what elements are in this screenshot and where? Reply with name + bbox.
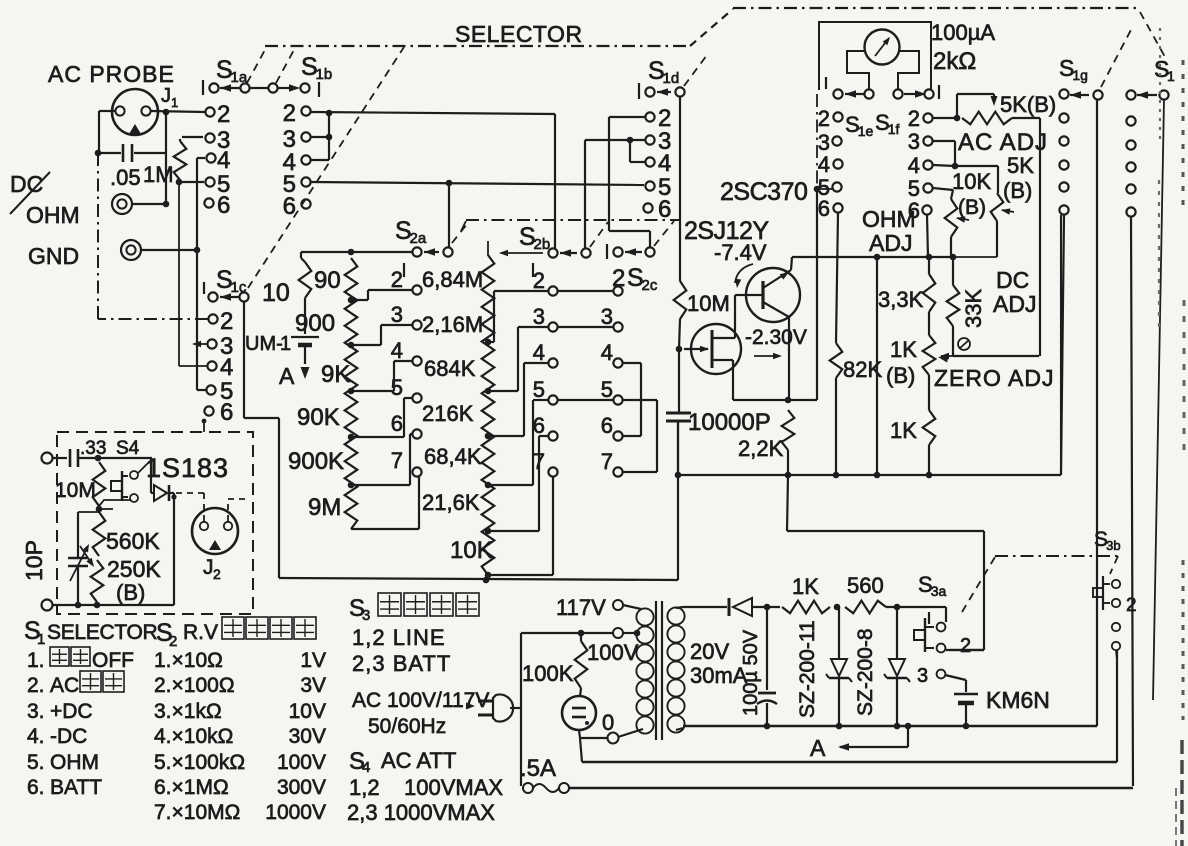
svg-text:2SC370: 2SC370	[720, 178, 807, 206]
svg-text:3: 3	[908, 129, 920, 154]
svg-text:2: 2	[220, 308, 233, 335]
switch S1b label	[301, 53, 332, 83]
svg-text:5: 5	[533, 377, 545, 402]
svg-text:5: 5	[391, 375, 403, 400]
label DC ADJ	[993, 267, 1036, 317]
battery UM-1	[291, 337, 319, 364]
switch S4	[99, 461, 150, 506]
wire secondary bottom to rail	[676, 726, 1097, 730]
scan edge artifacts	[1159, 28, 1184, 846]
label 9M	[308, 494, 341, 521]
svg-text:ZERO ADJ: ZERO ADJ	[934, 365, 1054, 391]
mech dash S3 link	[962, 556, 1118, 612]
label 250K (B)	[107, 556, 161, 605]
svg-text:AC 100V/117V: AC 100V/117V	[352, 689, 489, 712]
label .33 S4	[80, 438, 140, 459]
wire chain1 bottom to c7	[351, 477, 419, 529]
wire collector to OHM ADJ rail	[791, 254, 956, 270]
svg-text:AC ATT: AC ATT	[381, 748, 456, 773]
wire fuse line to S1h	[569, 787, 1133, 790]
svg-text:6: 6	[818, 196, 830, 221]
wire 100V tap bus	[521, 630, 613, 637]
svg-text:5: 5	[601, 377, 613, 402]
svg-text:OHM: OHM	[50, 751, 99, 774]
switch S2b contacts 2-7	[548, 286, 557, 476]
svg-text:3V: 3V	[300, 674, 326, 697]
capacitor 100u 50V	[757, 604, 777, 730]
wire return line to S3b	[582, 650, 1117, 762]
svg-text:2kΩ: 2kΩ	[933, 48, 976, 75]
label 1M	[143, 162, 174, 187]
switch S1c label	[216, 266, 247, 296]
svg-text:6: 6	[220, 399, 233, 426]
svg-text:3.×1kΩ: 3.×1kΩ	[154, 700, 222, 723]
trimmer screw	[958, 338, 970, 350]
resistor 2.2K	[782, 410, 795, 478]
capacitor .05	[101, 144, 165, 162]
svg-text:S4: S4	[116, 438, 140, 459]
svg-text:21,6K: 21,6K	[422, 490, 480, 515]
label -7.4V and arrow	[714, 240, 767, 288]
wire S1e c5 to meter return	[817, 188, 832, 190]
wire tap S2b c5	[488, 400, 548, 485]
resistor 100K	[575, 633, 588, 697]
svg-text:2,3 BATT: 2,3 BATT	[352, 651, 451, 676]
terminal top	[42, 453, 68, 464]
svg-text:3,3K: 3,3K	[878, 287, 924, 312]
wire source node	[733, 399, 817, 401]
switch S3b plunger	[1093, 576, 1120, 610]
label 21.6K	[422, 490, 480, 515]
svg-text:.5A: .5A	[520, 755, 556, 782]
resistor 1M	[174, 137, 204, 185]
labels S1d 2-6	[658, 105, 671, 223]
wire divider bottom bus	[279, 421, 678, 583]
svg-text:10K: 10K	[952, 169, 991, 194]
jack DC/OHM	[112, 194, 164, 214]
switch S2a contacts 2-7	[412, 285, 421, 476]
diode 1S183	[151, 458, 174, 501]
mech dash S1b	[276, 48, 295, 83]
label AC PROBE	[48, 61, 175, 87]
switch S1d label	[648, 57, 679, 87]
wire S2c c4-c6 bridge	[623, 363, 641, 436]
wire S1g pivot down to supply rail	[1096, 100, 1098, 726]
legend S4	[349, 748, 456, 776]
switch S2c arm	[613, 247, 654, 256]
svg-text:2: 2	[818, 106, 830, 131]
node A arrow below battery	[279, 363, 310, 389]
labels S2b 2-7	[533, 263, 545, 474]
svg-text:4.: 4.	[27, 725, 45, 748]
svg-text:3b: 3b	[1106, 538, 1120, 553]
potentiometer 250K(B)	[80, 546, 103, 608]
svg-text:4: 4	[217, 147, 230, 174]
svg-text:2.: 2.	[27, 674, 45, 697]
label 10M probe	[55, 479, 96, 502]
wire tap S2b c3	[488, 327, 548, 391]
svg-text:6: 6	[658, 196, 671, 223]
svg-text:.05: .05	[110, 165, 141, 190]
svg-text:1K: 1K	[792, 574, 819, 599]
transformer core	[656, 601, 662, 740]
label 90	[314, 267, 341, 294]
label 5K(B)	[1000, 92, 1056, 117]
label 117V	[556, 595, 606, 620]
svg-text:100V: 100V	[277, 751, 326, 774]
label AC ADJ	[958, 129, 1048, 156]
svg-text:3: 3	[601, 304, 613, 329]
wire node J1 down to DC jack	[163, 112, 170, 207]
label 900	[295, 310, 335, 337]
mech dash diagonal S1g	[1101, 26, 1133, 87]
label 1K	[890, 418, 917, 443]
wire S2c c5-c7 bridge	[623, 400, 657, 472]
svg-text:4: 4	[601, 340, 613, 365]
svg-text:2: 2	[391, 267, 403, 292]
legend S1 row1	[27, 647, 134, 672]
switch S1e arm	[833, 89, 873, 98]
label 100V	[587, 640, 639, 665]
svg-text:2,16M: 2,16M	[422, 312, 483, 337]
svg-text:6: 6	[217, 192, 230, 219]
switch S1e contacts 2-6	[832, 112, 842, 212]
label 2k ohm	[933, 48, 976, 75]
resistor 1K	[923, 410, 936, 478]
wire FET source down	[732, 360, 734, 400]
wire S1d c4 tie	[630, 140, 645, 162]
svg-text:.33: .33	[80, 438, 106, 459]
resistor chain 90/900/9K/90K/900K/9M	[345, 258, 358, 529]
svg-text:1.: 1.	[27, 649, 45, 672]
label 3.3K	[878, 287, 924, 312]
transistor 2SC370	[746, 268, 800, 322]
potentiometer 1K(B) zero adj	[923, 335, 949, 410]
svg-text:10P: 10P	[21, 540, 47, 581]
svg-text:(B): (B)	[1003, 178, 1032, 203]
label SZ-200-8 rotated	[854, 628, 877, 716]
label 68.4K	[424, 444, 482, 469]
label 100K	[522, 661, 574, 686]
svg-text:3: 3	[391, 302, 403, 327]
wire S2b c7 to chain bottom	[488, 477, 553, 575]
svg-text:4: 4	[391, 338, 403, 363]
svg-text:UM-: UM-	[245, 333, 283, 355]
capacitor 10P trimmer	[68, 512, 99, 608]
resistor 1K bridge	[782, 601, 840, 614]
svg-text:1000V: 1000V	[265, 801, 326, 824]
svg-text:A: A	[279, 363, 295, 389]
svg-text:ADJ: ADJ	[993, 291, 1036, 317]
resistor 10M probe	[93, 455, 106, 513]
mech dash long diagonal S1c linkage	[248, 47, 404, 288]
wire bridge to S3a c1	[940, 607, 946, 622]
wire S1b contacts 3-4 tie	[311, 113, 332, 160]
potentiometer 10K(B)	[933, 188, 969, 257]
wire J1 left pin down	[95, 111, 115, 156]
svg-text:2: 2	[213, 566, 221, 582]
legend S1 row3	[27, 700, 93, 723]
svg-text:-7.4V: -7.4V	[714, 240, 767, 265]
wire S1h pivot down	[1153, 100, 1164, 700]
label -2.30V and arrow	[745, 326, 807, 359]
svg-text:0: 0	[602, 710, 614, 735]
wire chain1 top	[301, 249, 412, 256]
svg-text:1: 1	[171, 95, 178, 110]
svg-text:AC ADJ: AC ADJ	[958, 129, 1048, 156]
mech dash S2a link	[452, 224, 467, 243]
svg-text:AC: AC	[50, 674, 79, 697]
svg-text:100µ 50V: 100µ 50V	[740, 629, 762, 716]
label SELECTOR	[455, 21, 583, 47]
resistor 82K	[830, 213, 843, 478]
wire c3 to relay	[945, 675, 966, 692]
label S3a contact 3	[917, 665, 945, 687]
svg-text:SELECTOR: SELECTOR	[47, 621, 158, 644]
resistor 10 (battery branch)	[299, 252, 312, 334]
svg-text:2: 2	[960, 635, 971, 657]
mech dash S2c link	[654, 221, 674, 246]
svg-text:2.×100Ω: 2.×100Ω	[154, 674, 235, 697]
legend S3	[349, 593, 479, 624]
svg-text:1V: 1V	[300, 649, 326, 672]
svg-text:20V: 20V	[690, 639, 729, 664]
switch S1f label	[875, 110, 900, 137]
switch S1c contacts 2-6	[204, 314, 217, 415]
svg-text:5.×100kΩ: 5.×100kΩ	[154, 751, 245, 774]
resistor 560K	[93, 509, 113, 556]
svg-text:7.×10MΩ: 7.×10MΩ	[154, 801, 240, 824]
label 100u 50V rotated	[740, 629, 762, 716]
wire tap S2a c5	[351, 398, 412, 437]
svg-text:1,2 LINE: 1,2 LINE	[352, 625, 446, 650]
label 216K	[422, 401, 474, 426]
wire S1d c3 to S2b pivot	[585, 137, 645, 248]
wire tap S2a c3	[351, 325, 412, 345]
legend S1 row2	[27, 671, 124, 697]
svg-text:-2.30V: -2.30V	[745, 326, 807, 349]
switch S1b contacts 2-6	[301, 106, 310, 208]
label DC/OHM	[10, 171, 80, 228]
svg-text:2a: 2a	[410, 230, 427, 247]
svg-text:OFF: OFF	[92, 649, 134, 672]
label GND	[28, 243, 79, 269]
label .05	[110, 165, 141, 190]
svg-text:684K: 684K	[424, 356, 476, 381]
svg-text:2: 2	[217, 101, 230, 128]
switch S1c position-1 tick	[203, 282, 205, 294]
label OHM ADJ	[862, 206, 916, 256]
svg-text:82K: 82K	[843, 357, 882, 382]
switch S1h contacts 2-6	[1126, 116, 1135, 216]
switch S2a arm	[412, 247, 452, 256]
svg-text:1: 1	[1167, 68, 1175, 84]
zener SZ-200-8	[884, 604, 910, 730]
label 0	[602, 710, 614, 735]
wire dashed to J2 pin1	[176, 493, 204, 521]
mech dash-dot selector top right	[733, 7, 1137, 9]
switch S1f position-1 tick	[938, 85, 940, 99]
resistor 3.3K	[923, 257, 936, 335]
svg-text:100VMAX: 100VMAX	[404, 775, 503, 800]
wire S1d pivot down through 10M	[679, 97, 681, 281]
label 900K	[288, 448, 344, 475]
wire S1c contact3 arrow	[192, 341, 207, 347]
label 82K	[843, 357, 882, 382]
wire S1a contact4 down to GND net and S1c contact5	[197, 158, 206, 390]
wire row5 S2b-S2c	[558, 399, 613, 401]
svg-text:1M: 1M	[143, 162, 174, 187]
svg-text:2b: 2b	[534, 236, 551, 253]
mech dash diagonal S1h	[1140, 12, 1165, 57]
zener SZ-200-11	[826, 607, 852, 729]
fuse	[523, 783, 569, 793]
node A arrow supply	[810, 723, 911, 761]
wire FET drain to base	[735, 295, 749, 338]
svg-text:100V: 100V	[587, 640, 639, 665]
wire dashed from J2 pin2	[228, 499, 250, 521]
labels S2c 2-7	[601, 304, 613, 474]
legend S1 SELECTOR	[24, 617, 316, 650]
label 10K	[450, 537, 493, 564]
switch S1g label	[1059, 55, 1088, 83]
switch S3a label	[918, 572, 947, 599]
label .5A	[520, 755, 556, 782]
mech dash-dot selector top left	[265, 45, 690, 47]
switch S1d contacts 2-6	[643, 112, 654, 212]
switch S1a wafer contacts and arm	[209, 83, 249, 92]
resistor chain 6.84M...10K	[482, 255, 495, 578]
switch S1b arm	[268, 83, 309, 92]
legend S4 row2	[347, 800, 495, 825]
svg-text:+DC: +DC	[50, 700, 93, 723]
svg-text:1g: 1g	[1072, 67, 1088, 83]
legend AC mains	[352, 689, 489, 712]
label 2.16M	[422, 312, 483, 337]
wire S1f c6 down	[927, 215, 928, 257]
svg-text:R.V: R.V	[183, 621, 218, 644]
svg-text:10M: 10M	[687, 291, 730, 316]
svg-text:10V: 10V	[289, 700, 326, 723]
labels S1f 2-6	[908, 106, 920, 223]
labels S1c 2-6	[220, 308, 233, 426]
mech dash-dot S2 rail	[461, 220, 680, 231]
legend S1 row5	[27, 751, 99, 774]
label 33K rotated	[961, 289, 986, 328]
svg-text:1.×10Ω: 1.×10Ω	[154, 649, 223, 672]
svg-text:1S183: 1S183	[146, 453, 229, 483]
label 560K	[106, 528, 160, 554]
wire secondary top to rectifier	[676, 607, 727, 608]
label 2.2K	[738, 436, 784, 461]
meter box	[819, 22, 931, 90]
wire meter return vertical	[814, 94, 821, 400]
switch S1h arm	[1126, 90, 1168, 99]
legend S3 row1	[352, 625, 446, 650]
potentiometer 5K(B) ac-adj	[933, 94, 1040, 124]
svg-text:9M: 9M	[308, 494, 341, 521]
label 10K (B)	[952, 169, 991, 219]
resistor 560	[845, 601, 940, 614]
svg-text:10K: 10K	[450, 537, 493, 564]
label 10M	[687, 291, 730, 316]
wire diode node down	[171, 493, 176, 605]
wire S1a pivot to S1b pivot	[250, 87, 269, 89]
wire mains left rail	[520, 633, 522, 786]
switch S1h label	[1154, 56, 1175, 84]
svg-text:2: 2	[908, 106, 920, 131]
svg-text:GND: GND	[28, 243, 79, 269]
switch S1b position-1 tick	[318, 82, 320, 97]
svg-text:6: 6	[391, 411, 403, 436]
mech dash S1d link	[684, 55, 707, 86]
wire S1b contact5 bus to S1d contact5	[311, 180, 644, 187]
legend S3 row2	[352, 651, 451, 676]
transformer primary winding	[636, 608, 653, 733]
svg-text:4: 4	[533, 340, 545, 365]
wire tap S2a c6	[351, 434, 412, 485]
switch S1f arm	[893, 89, 933, 98]
capacitor .33	[70, 449, 152, 467]
switch S2b arm	[548, 248, 590, 257]
transformer primary taps	[608, 600, 644, 744]
svg-text:90K: 90K	[297, 404, 340, 431]
legend S1 row6	[27, 776, 102, 799]
svg-text:1e: 1e	[858, 123, 874, 139]
svg-text:2,3 1000VMAX: 2,3 1000VMAX	[347, 800, 495, 825]
svg-text:90: 90	[314, 267, 341, 294]
svg-text:ADJ: ADJ	[869, 230, 912, 256]
label 20V 30mA	[690, 639, 748, 688]
wire emitter down through 2.2K	[785, 317, 792, 403]
potentiometer 5K(B) vertical	[991, 166, 1014, 257]
label 100uA	[931, 20, 995, 45]
svg-text:J: J	[203, 556, 214, 579]
svg-text:560: 560	[847, 573, 884, 598]
svg-text:3: 3	[362, 607, 370, 624]
svg-text:(B): (B)	[886, 363, 915, 388]
svg-text:10000P: 10000P	[688, 409, 771, 436]
labels S1b 2-6	[283, 100, 296, 220]
wire 2.2K bottom to S3a c2 loop	[787, 475, 984, 650]
wire S1g c6 down to bottom rail	[1061, 215, 1064, 475]
svg-text:3: 3	[917, 665, 928, 687]
label 560	[847, 573, 884, 598]
svg-text:250K: 250K	[107, 556, 161, 582]
svg-text:216K: 216K	[422, 401, 474, 426]
svg-text:1d: 1d	[663, 70, 680, 87]
svg-text:1K: 1K	[890, 337, 917, 362]
svg-text:560K: 560K	[106, 528, 160, 554]
svg-text:900: 900	[295, 310, 335, 337]
svg-text:AC PROBE: AC PROBE	[48, 61, 175, 87]
wire S1h c6 down to fuse line	[1131, 217, 1133, 786]
switch S1a position-1 tick	[202, 80, 204, 95]
mech dash S2b link	[590, 222, 608, 247]
wire pots to ohm-adj rail	[953, 256, 997, 258]
switch S1a label	[216, 56, 248, 86]
svg-text:6: 6	[601, 413, 613, 438]
switch S1e position-1 tick	[825, 77, 827, 89]
wire J1 right pin to S1a contact 2	[151, 109, 205, 116]
switch S1g contacts 2-6	[1059, 113, 1068, 214]
switch S2a position-1 tick and 2	[403, 263, 405, 277]
svg-text:100K: 100K	[522, 661, 574, 686]
svg-text:J: J	[161, 85, 171, 107]
transistor 2SJ12Y FET	[684, 324, 741, 374]
wire S1c contact2 to probe return	[98, 318, 208, 320]
wire S3a c2 loop	[946, 649, 984, 651]
